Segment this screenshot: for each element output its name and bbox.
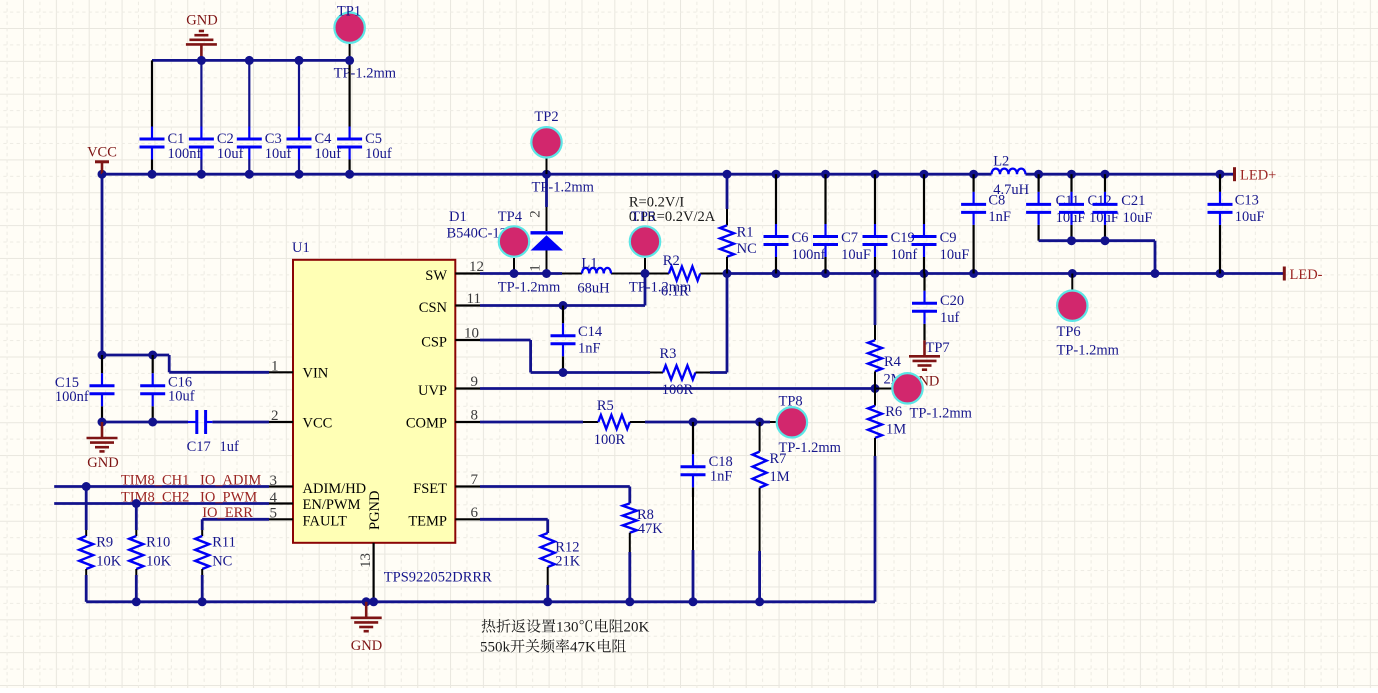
junction — [132, 597, 141, 606]
svg-text:IO_PWM: IO_PWM — [200, 490, 257, 506]
svg-text:100R: 100R — [662, 382, 694, 398]
svg-text:3: 3 — [270, 473, 278, 489]
junction — [132, 499, 141, 508]
svg-text:C20: C20 — [940, 293, 964, 309]
pin 6 TEMP — [455, 518, 480, 520]
svg-text:TIM8_CH1: TIM8_CH1 — [121, 472, 189, 488]
junction — [625, 597, 634, 606]
svg-text:L1: L1 — [581, 255, 597, 271]
capacitor C8 — [972, 174, 974, 192]
junction — [1216, 269, 1225, 278]
junction — [148, 170, 157, 179]
pin 12 SW — [455, 272, 480, 274]
junction — [1101, 170, 1110, 179]
wire ADIM — [54, 485, 269, 488]
svg-text:1M: 1M — [770, 469, 790, 485]
junction — [98, 170, 107, 179]
wire FAULT — [202, 518, 269, 521]
capacitor C19 — [874, 174, 876, 224]
resistor R2 — [669, 267, 700, 281]
junction — [295, 56, 304, 65]
svg-text:10: 10 — [464, 326, 479, 342]
svg-text:CSN: CSN — [419, 300, 448, 316]
junction — [1216, 170, 1225, 179]
svg-text:C4: C4 — [315, 131, 333, 147]
junction — [755, 418, 764, 427]
junction — [98, 351, 107, 360]
wire — [630, 421, 645, 423]
svg-text:C3: C3 — [265, 131, 282, 147]
pin 11 CSN — [455, 304, 480, 306]
junction — [969, 170, 978, 179]
svg-text:TP-1.2mm: TP-1.2mm — [498, 280, 561, 296]
svg-text:13: 13 — [358, 553, 374, 568]
pin 1 VIN — [269, 371, 293, 373]
svg-text:FSET: FSET — [413, 481, 447, 497]
svg-text:L2: L2 — [993, 154, 1009, 170]
svg-text:6: 6 — [471, 505, 479, 521]
junction — [1068, 269, 1077, 278]
svg-text:R2: R2 — [663, 253, 680, 269]
svg-text:CSP: CSP — [421, 334, 447, 350]
capacitor C1 — [151, 60, 153, 126]
port LED- — [1283, 267, 1286, 281]
wire VCC rail — [102, 173, 992, 176]
junction — [1067, 170, 1076, 179]
svg-text:TP5: TP5 — [631, 209, 655, 225]
junction — [198, 597, 207, 606]
svg-text:TP-1.2mm: TP-1.2mm — [532, 180, 595, 196]
svg-text:TP1: TP1 — [337, 4, 361, 20]
capacitor C4 — [298, 60, 300, 126]
pin 5 FAULT — [269, 518, 293, 520]
wire — [710, 371, 727, 374]
svg-text:10uF: 10uF — [1235, 209, 1265, 225]
pin 13 PGND — [373, 543, 375, 602]
svg-text:C14: C14 — [578, 324, 603, 340]
svg-text:1: 1 — [528, 264, 544, 272]
junction — [723, 269, 732, 278]
svg-text:TPS922052DRRR: TPS922052DRRR — [384, 570, 492, 586]
svg-text:TP7: TP7 — [926, 340, 950, 356]
svg-text:C11: C11 — [1056, 193, 1080, 209]
svg-text:IO_ERR: IO_ERR — [202, 505, 253, 521]
svg-text:VIN: VIN — [303, 366, 329, 382]
svg-text:GND: GND — [351, 638, 382, 654]
svg-text:2: 2 — [528, 210, 544, 218]
capacitor C14 — [562, 306, 564, 324]
svg-text:LED-: LED- — [1290, 267, 1323, 283]
ground — [87, 422, 118, 451]
resistor R8 — [623, 503, 637, 532]
svg-text:R6: R6 — [885, 404, 902, 420]
testpoint TP8 — [770, 421, 777, 423]
junction — [369, 597, 378, 606]
resistor R7 — [759, 422, 761, 452]
junction — [245, 56, 254, 65]
svg-text:R9: R9 — [96, 535, 113, 551]
svg-text:TP4: TP4 — [498, 209, 523, 225]
resistor R4 — [874, 274, 877, 326]
svg-text:C8: C8 — [988, 193, 1005, 209]
svg-text:COMP: COMP — [406, 416, 447, 432]
svg-text:ADIM/HD: ADIM/HD — [303, 481, 367, 497]
svg-text:C19: C19 — [891, 230, 915, 246]
annotation chinese line1 — [482, 619, 496, 633]
op-amp U1 TPS922052DRRR body — [293, 260, 455, 543]
capacitor C7 — [824, 174, 826, 224]
capacitor C21 — [1104, 174, 1106, 192]
capacitor C13 — [1219, 174, 1221, 192]
wire cap bus — [1039, 239, 1155, 242]
resistor R12 — [541, 533, 555, 567]
svg-text:C2: C2 — [217, 131, 234, 147]
svg-text:EN/PWM: EN/PWM — [303, 497, 361, 513]
junction — [1034, 170, 1043, 179]
wire ground rail — [86, 600, 875, 603]
capacitor C16 — [152, 355, 154, 373]
capacitor C9 — [923, 174, 925, 224]
svg-text:2: 2 — [271, 408, 279, 424]
wire SW to LED- — [480, 272, 562, 275]
svg-text:100nf: 100nf — [55, 389, 89, 405]
svg-text:GND: GND — [87, 455, 118, 471]
svg-text:FAULT: FAULT — [303, 514, 347, 530]
svg-text:8: 8 — [471, 408, 479, 424]
wire FSET — [480, 485, 630, 488]
testpoint TP6 — [1071, 274, 1073, 291]
junction — [821, 170, 830, 179]
svg-text:R3: R3 — [660, 346, 677, 362]
svg-text:C7: C7 — [841, 230, 858, 246]
resistor R1 — [726, 174, 729, 209]
capacitor C12 — [1070, 174, 1072, 192]
svg-text:TP6: TP6 — [1057, 324, 1081, 340]
power VCC — [95, 160, 109, 163]
wire TEMP — [480, 518, 548, 521]
svg-text:C12: C12 — [1088, 193, 1112, 209]
inductor L1 — [582, 268, 611, 274]
ground TP7 — [909, 340, 940, 369]
junction — [689, 597, 698, 606]
testpoint TP4 — [513, 258, 515, 274]
svg-text:10K: 10K — [96, 554, 122, 570]
junction — [1067, 236, 1076, 245]
svg-text:VCC: VCC — [303, 416, 333, 432]
svg-text:C1: C1 — [168, 131, 185, 147]
resistor R9 — [85, 487, 88, 531]
junction — [245, 170, 254, 179]
ground — [351, 602, 382, 631]
svg-text:10K: 10K — [146, 554, 172, 570]
svg-text:IO_ADIM: IO_ADIM — [200, 472, 261, 488]
wire — [152, 59, 350, 62]
svg-text:1uf: 1uf — [940, 310, 960, 326]
svg-text:R1: R1 — [737, 224, 754, 240]
junction — [345, 170, 354, 179]
junction — [98, 418, 107, 427]
svg-text:10uf: 10uf — [168, 388, 195, 404]
junction — [969, 269, 978, 278]
svg-text:10uF: 10uF — [1123, 210, 1153, 226]
svg-text:PGND: PGND — [367, 491, 383, 530]
resistor R5 — [598, 415, 630, 429]
svg-text:C9: C9 — [940, 230, 957, 246]
svg-text:10uF: 10uF — [841, 247, 871, 263]
capacitor C20 — [923, 274, 925, 291]
svg-text:4: 4 — [270, 490, 278, 506]
svg-text:VCC: VCC — [87, 145, 117, 161]
junction — [689, 418, 698, 427]
pin 3 ADIM/HD — [269, 485, 293, 487]
svg-text:TP2: TP2 — [534, 109, 558, 125]
resistor R10 — [135, 504, 138, 531]
junction — [723, 170, 732, 179]
junction — [920, 170, 929, 179]
diode D1 — [545, 174, 548, 207]
junction — [871, 384, 880, 393]
capacitor C18 — [692, 422, 694, 454]
svg-text:C5: C5 — [365, 131, 382, 147]
port LED+ — [1233, 167, 1236, 181]
capacitor C3 — [248, 60, 250, 126]
wire VCC vertical — [101, 174, 104, 355]
junction — [1101, 236, 1110, 245]
svg-text:1: 1 — [271, 358, 279, 374]
pin 9 UVP — [455, 387, 480, 389]
ground — [186, 31, 217, 60]
resistor R11 — [201, 519, 204, 530]
testpoint TP5 — [644, 258, 646, 274]
junction — [821, 269, 830, 278]
svg-text:1nF: 1nF — [578, 340, 601, 356]
junction — [295, 170, 304, 179]
pin 10 CSP — [455, 339, 480, 341]
svg-text:11: 11 — [467, 291, 481, 307]
junction — [1151, 269, 1160, 278]
wire CSP — [480, 339, 531, 342]
capacitor C5 — [349, 60, 351, 126]
svg-text:TP-1.2mm: TP-1.2mm — [1057, 342, 1120, 358]
wire VCC pin — [102, 421, 188, 424]
capacitor C6 — [775, 174, 777, 224]
svg-text:GND: GND — [186, 13, 217, 29]
svg-text:UVP: UVP — [418, 383, 447, 399]
svg-text:TIM8_CH2: TIM8_CH2 — [121, 490, 189, 506]
pin 2 VCC — [269, 421, 293, 423]
svg-text:U1: U1 — [292, 240, 310, 256]
svg-text:TEMP: TEMP — [408, 514, 447, 530]
svg-text:9: 9 — [471, 374, 479, 390]
svg-text:1nF: 1nF — [710, 469, 733, 485]
svg-text:1uf: 1uf — [220, 439, 240, 455]
junction — [871, 170, 880, 179]
junction — [772, 170, 781, 179]
junction — [755, 597, 764, 606]
svg-text:TP-1.2mm: TP-1.2mm — [779, 440, 842, 456]
svg-text:5: 5 — [270, 506, 278, 522]
svg-text:10uF: 10uF — [940, 247, 970, 263]
capacitor C11 — [1037, 174, 1039, 192]
junction — [543, 597, 552, 606]
junction — [871, 269, 880, 278]
svg-text:10nf: 10nf — [891, 247, 918, 263]
junction — [559, 301, 568, 310]
inductor L2 — [992, 169, 1026, 175]
pin 7 FSET — [455, 485, 480, 487]
junction — [197, 170, 206, 179]
junction — [772, 269, 781, 278]
svg-text:NC: NC — [737, 241, 757, 257]
svg-text:47K: 47K — [570, 640, 596, 656]
wire VIN — [102, 354, 169, 357]
resistor R6 — [874, 389, 876, 406]
junction — [559, 368, 568, 377]
capacitor C2 — [200, 60, 202, 126]
wire EN/PWM — [54, 502, 269, 505]
junction — [641, 269, 650, 278]
svg-text:C6: C6 — [792, 230, 809, 246]
svg-text:100nf: 100nf — [792, 247, 826, 263]
svg-text:21K: 21K — [555, 554, 581, 570]
wire UVP — [480, 387, 875, 390]
svg-text:100R: 100R — [594, 432, 626, 448]
svg-text:C17: C17 — [187, 439, 211, 455]
svg-text:R10: R10 — [146, 535, 170, 551]
svg-text:7: 7 — [471, 472, 479, 488]
junction — [148, 418, 157, 427]
pin 4 EN/PWM — [269, 502, 293, 504]
svg-text:LED+: LED+ — [1240, 168, 1276, 184]
svg-text:47K: 47K — [638, 521, 664, 537]
svg-text:NC: NC — [212, 554, 232, 570]
svg-text:TP-1.2mm: TP-1.2mm — [334, 66, 397, 82]
pin 8 COMP — [455, 421, 480, 423]
junction — [542, 170, 551, 179]
testpoint TP7 — [875, 388, 892, 390]
junction — [920, 269, 929, 278]
junction — [148, 351, 157, 360]
svg-text:0.1R: 0.1R — [661, 284, 689, 300]
svg-text:C13: C13 — [1235, 193, 1259, 209]
wire CSN — [480, 304, 645, 307]
svg-text:R5: R5 — [597, 398, 614, 414]
junction — [362, 597, 371, 606]
svg-text:TP8: TP8 — [779, 394, 803, 410]
svg-text:TP-1.2mm: TP-1.2mm — [910, 406, 973, 422]
testpoint TP1 — [349, 43, 351, 61]
capacitor C17 — [188, 421, 196, 423]
svg-text:SW: SW — [425, 268, 447, 284]
svg-text:130: 130 — [556, 620, 579, 636]
junction — [82, 482, 91, 491]
svg-text:20K: 20K — [624, 620, 650, 636]
junction — [510, 269, 519, 278]
svg-text:1M: 1M — [886, 422, 906, 438]
junction — [542, 269, 551, 278]
svg-text:10uf: 10uf — [365, 146, 392, 162]
svg-text:1nF: 1nF — [988, 209, 1011, 225]
junction — [345, 56, 354, 65]
svg-text:R4: R4 — [884, 354, 902, 370]
testpoint TP2 — [546, 158, 548, 175]
svg-text:68uH: 68uH — [577, 281, 610, 297]
wire COMP — [480, 421, 583, 424]
capacitor C15 — [101, 355, 103, 373]
junction — [197, 56, 206, 65]
svg-text:R11: R11 — [212, 535, 236, 551]
svg-text:C21: C21 — [1121, 193, 1145, 209]
svg-text:550k: 550k — [480, 640, 511, 656]
resistor R3 — [650, 372, 663, 374]
svg-text:D1: D1 — [449, 209, 467, 225]
